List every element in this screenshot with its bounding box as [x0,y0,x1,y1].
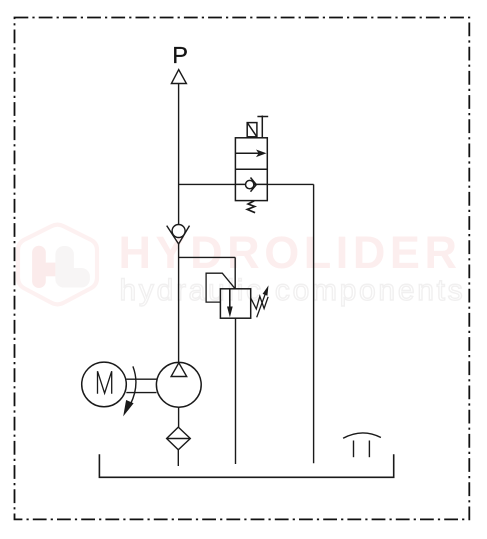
shaft coupling [126,379,156,392]
wire: P down to check valve [178,84,180,226]
breather / air filter [343,433,381,457]
wire: solenoid valve to tank [267,184,313,463]
solenoid valve U1 [235,116,268,213]
wire: check valve to pump [178,244,180,363]
wire: pump suction to filter [178,407,180,427]
svg-text:hydraulic components: hydraulic components [120,274,466,307]
relief valve RV1 [206,273,268,318]
svg-text:P: P [172,42,188,68]
tank T1 [99,454,393,477]
svg-text:HYDROLIDER: HYDROLIDER [119,227,462,278]
motor M1 [82,362,127,407]
filter F1 [167,427,191,450]
wire: relief valve drain to tank [235,318,237,464]
rotation direction arrow [123,366,136,416]
wire: branch to solenoid valve [179,183,236,185]
wire: branch to relief valve [179,257,236,288]
wire: filter to tank [177,450,179,466]
check valve CV1 [167,225,190,245]
port P symbol [171,70,186,84]
pump P1 [156,362,201,407]
watermark logo [18,225,97,305]
